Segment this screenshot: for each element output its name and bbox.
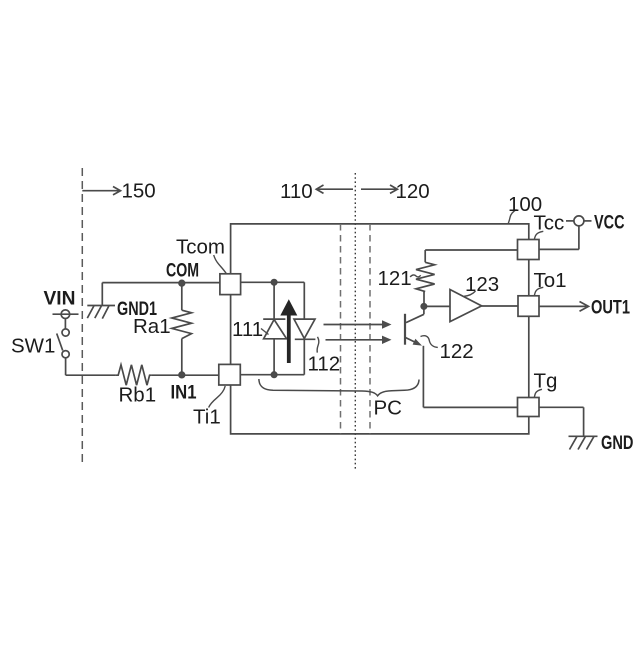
svg-text:Rb1: Rb1	[119, 384, 157, 407]
svg-text:Tg: Tg	[534, 370, 558, 393]
svg-text:PC: PC	[374, 397, 403, 420]
svg-text:To1: To1	[534, 269, 567, 292]
svg-text:COM: COM	[166, 261, 199, 282]
svg-text:123: 123	[465, 273, 499, 296]
svg-text:SW1: SW1	[11, 335, 55, 358]
svg-text:Ti1: Ti1	[193, 406, 221, 429]
svg-text:Tcom: Tcom	[176, 236, 225, 259]
svg-text:150: 150	[122, 180, 156, 203]
svg-text:120: 120	[396, 180, 430, 203]
svg-text:122: 122	[440, 340, 474, 363]
svg-text:111: 111	[232, 318, 263, 341]
svg-text:GND: GND	[601, 433, 634, 454]
svg-text:112: 112	[308, 353, 341, 376]
svg-text:OUT1: OUT1	[591, 298, 630, 319]
svg-text:121: 121	[378, 267, 412, 290]
svg-text:VCC: VCC	[594, 213, 625, 234]
svg-text:GND1: GND1	[117, 299, 157, 320]
svg-text:VIN: VIN	[44, 289, 76, 310]
svg-text:IN1: IN1	[171, 383, 197, 404]
svg-text:110: 110	[280, 180, 313, 203]
svg-text:Tcc: Tcc	[534, 212, 565, 235]
